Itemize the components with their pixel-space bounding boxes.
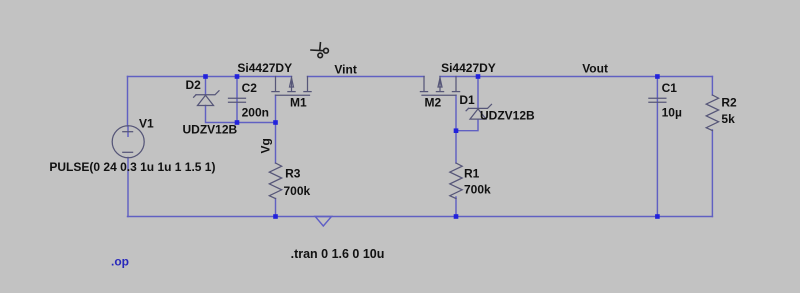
- wire D1 anode lead: [456, 119, 478, 131]
- svg-text:5k: 5k: [721, 112, 735, 126]
- svg-text:D1: D1: [459, 93, 475, 107]
- svg-text:V1: V1: [139, 117, 154, 131]
- resistor R3: [269, 163, 281, 199]
- svg-text:700k: 700k: [464, 183, 491, 197]
- node C1 bottom: [655, 214, 660, 219]
- svg-text:Vg: Vg: [259, 138, 273, 153]
- resistor R1: [450, 163, 462, 199]
- svg-text:M2: M2: [425, 95, 442, 109]
- node D2 top: [203, 74, 208, 79]
- wire M2 gate lead down: [455, 95, 457, 131]
- svg-text:.op: .op: [111, 255, 129, 269]
- svg-text:C2: C2: [242, 81, 258, 95]
- wire R1 bottom lead: [455, 197, 457, 217]
- svg-text:Si4427DY: Si4427DY: [237, 61, 292, 75]
- wire bottom rail: [128, 216, 713, 218]
- wire V1 bottom lead: [127, 158, 129, 217]
- wire right vertical bottom (R2 bottom lead): [711, 130, 713, 217]
- wire top rail right: [440, 76, 712, 78]
- wire node Vint: [308, 76, 425, 78]
- svg-text:.tran 0 1.6 0 10u: .tran 0 1.6 0 10u: [291, 247, 385, 261]
- wire D1 cathode lead: [477, 77, 479, 109]
- junction nodes: [203, 74, 659, 219]
- wire D2 top lead: [205, 77, 207, 95]
- wire node Vg horizontal: [237, 122, 276, 124]
- zener D1: [466, 104, 491, 119]
- svg-text:D2: D2: [186, 78, 202, 92]
- voltage source V1: [112, 126, 144, 158]
- wire left vertical (V1 top lead): [127, 77, 130, 137]
- svg-text:700k: 700k: [284, 184, 311, 198]
- svg-text:Vout: Vout: [582, 62, 608, 76]
- wire top rail left: [128, 76, 292, 78]
- wire D2 anode lead to node: [206, 106, 238, 123]
- node C2 top: [235, 74, 240, 79]
- ground: [315, 217, 331, 227]
- node R1 bottom: [454, 214, 459, 219]
- svg-text:10µ: 10µ: [662, 105, 682, 119]
- scissors cursor: [310, 42, 328, 58]
- svg-text:Si4427DY: Si4427DY: [441, 61, 496, 75]
- node Vg: [273, 120, 278, 125]
- svg-text:PULSE(0 24 0.3 1u 1u 1 1.5 1): PULSE(0 24 0.3 1u 1u 1 1.5 1): [49, 160, 215, 174]
- node D1 top: [476, 74, 481, 79]
- svg-text:M1: M1: [290, 95, 307, 109]
- capacitor C1: [649, 98, 666, 102]
- node R3 bottom: [273, 214, 278, 219]
- wire right vertical top (R2 top lead): [711, 77, 713, 96]
- transistor M1: [272, 77, 311, 96]
- svg-text:Vint: Vint: [334, 63, 356, 77]
- svg-text:R2: R2: [721, 95, 737, 109]
- svg-text:R1: R1: [464, 166, 480, 180]
- transistor M2: [420, 77, 459, 96]
- svg-text:UDZV12B: UDZV12B: [183, 123, 238, 137]
- wire Vg vertical / R3 top lead: [275, 95, 277, 163]
- node M2 gate / R1 / D1: [454, 128, 459, 133]
- wire C1 top lead: [656, 77, 658, 217]
- resistor R2: [706, 95, 718, 131]
- wire R3 bottom lead: [275, 199, 277, 217]
- zener D2: [194, 91, 219, 106]
- capacitor C2: [229, 98, 246, 102]
- svg-text:UDZV12B: UDZV12B: [480, 109, 535, 123]
- svg-text:C1: C1: [662, 81, 678, 95]
- svg-text:200n: 200n: [242, 106, 269, 120]
- node C2 bottom: [235, 120, 240, 125]
- wire C2 top lead: [236, 77, 238, 123]
- wire R1 top lead: [455, 131, 457, 163]
- svg-text:R3: R3: [285, 167, 301, 181]
- node C1 top: [655, 74, 660, 79]
